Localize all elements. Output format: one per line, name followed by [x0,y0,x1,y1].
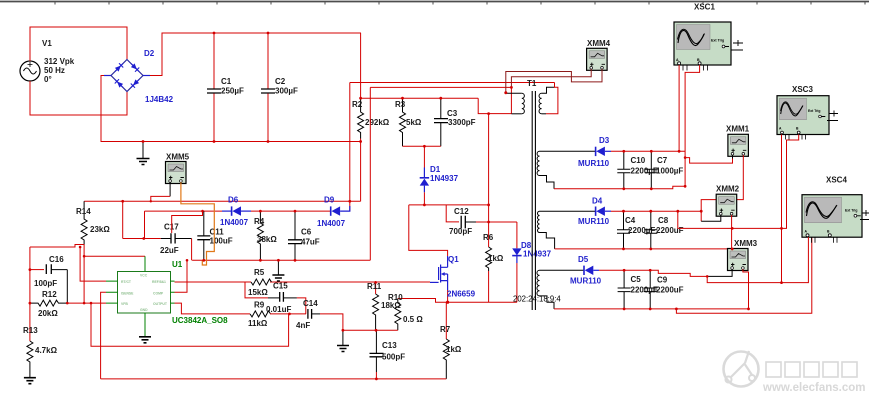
capacitor C3 [434,98,476,146]
svg-text:C7: C7 [657,156,668,165]
svg-text:XMM1: XMM1 [726,125,750,134]
wire node y=260 line [192,259,370,261]
wire U1 pin OUT2 to R9 line [175,303,251,314]
capacitor C9 [644,270,684,309]
svg-text:312 Vpk: 312 Vpk [44,57,75,66]
svg-text:2200µF: 2200µF [631,286,658,295]
svg-text:292kΩ: 292kΩ [365,118,390,127]
transformer primary winding left [506,93,525,114]
svg-text:1N4007: 1N4007 [317,219,346,228]
svg-text:R9: R9 [254,301,265,310]
capacitor C5 [618,270,658,309]
svg-text:1000µF: 1000µF [656,167,683,176]
wire XMM1 left lead [732,155,734,158]
wire return1 [554,186,685,189]
wire R2 bottom down [360,139,362,202]
svg-text:R12: R12 [42,290,57,299]
wire D6 node staircase [172,211,203,233]
resistor R12 [30,290,67,318]
svg-text:D2: D2 [144,49,155,58]
svg-text:D3: D3 [599,136,610,145]
diode D8 [512,222,551,302]
svg-text:22uF: 22uF [160,246,179,255]
watermark text [766,362,857,377]
wire C17 left riser [122,201,124,238]
transformer secondary winding 2 [538,211,596,249]
svg-text:15kΩ: 15kΩ [248,288,268,297]
svg-text:4nF: 4nF [296,321,310,330]
svg-text:XMM2: XMM2 [716,185,740,194]
svg-text:R5: R5 [254,268,265,277]
oscilloscope XSC4 [802,176,869,243]
svg-text:C4: C4 [625,216,636,225]
svg-text:100uF: 100uF [210,237,233,246]
resistor R11 [367,282,401,330]
resistor R6 [483,205,504,302]
svg-text:C16: C16 [49,255,64,264]
capacitor C4 [617,211,655,249]
svg-text:RT/CT: RT/CT [121,280,132,284]
svg-text:C6: C6 [301,228,312,237]
diode D4 [578,197,611,227]
wire right winding loop [546,83,558,114]
wire XMM2 right lead to return2 [731,215,733,249]
ground (C14 node) [337,330,349,351]
bridge rectifier D2 [111,49,174,104]
diode D3 [578,136,611,168]
wire U1 pin3 left line [67,302,106,304]
wire return3 [554,308,749,310]
svg-text:20kΩ: 20kΩ [38,309,58,318]
resistor R7 [440,302,462,379]
resistor R14 [76,201,110,244]
svg-text:R4: R4 [254,217,265,226]
svg-text:D9: D9 [324,196,335,205]
diode D1 [420,146,459,205]
diode D5 [570,255,602,286]
multimeter XMM4 [587,39,611,70]
svg-text:38kΩ: 38kΩ [257,235,277,244]
resistor R9 [248,301,270,329]
wire C16/R12 right riser [66,270,68,304]
svg-text:1N4937: 1N4937 [430,174,459,183]
resistor R5 [248,268,271,297]
svg-text:50 Hz: 50 Hz [44,66,65,75]
svg-text:A: A [676,58,679,62]
wire XMM4 left lead [511,69,591,87]
multimeter XMM3 [728,239,758,271]
svg-text:T1: T1 [527,79,537,88]
resistor R10 [388,293,423,330]
svg-text:R13: R13 [23,326,38,335]
svg-text:C14: C14 [303,299,318,308]
wire XMM2 left lead [701,215,721,221]
capacitor C16 [30,255,67,288]
wire long node line y=201 [84,200,360,202]
op-amp U1 UC3842 [106,256,228,336]
svg-text:47uF: 47uF [301,238,320,247]
capacitor C6 [288,211,320,260]
svg-text:R7: R7 [440,325,451,334]
svg-text:XSC4: XSC4 [826,176,847,185]
svg-text:Ext Trig: Ext Trig [808,109,820,113]
wire snubber line2 [370,86,511,88]
wire output3 line [599,270,707,276]
wire XSC3 B probe line [678,135,799,229]
wire snubber line1 [350,82,555,84]
svg-text:D5: D5 [578,255,589,264]
wire V1 top to bridge top [30,27,127,61]
wire R3/C3 bottom link [403,145,441,147]
svg-text:500pF: 500pF [382,353,405,362]
svg-text:3300pF: 3300pF [448,118,476,127]
svg-text:V1: V1 [42,39,52,48]
watermark logo [724,351,759,387]
svg-text:MUR110: MUR110 [578,217,610,226]
capacitor C12 [446,205,517,236]
wire snubber drop line2 [369,87,371,260]
svg-text:Ext Trig: Ext Trig [711,39,724,43]
wire XMM4 drop to primary [510,87,512,113]
svg-text:C1: C1 [221,77,232,86]
wire snubber drop line1 [349,83,351,212]
wire U1 pin COMP riser [175,260,188,292]
ground (y=260 line) [272,260,284,281]
capacitor C2 [261,33,298,142]
svg-text:XSC3: XSC3 [792,85,813,94]
wire V1 bottom to bridge bottom [30,81,127,115]
wire XSC3 A probe [781,135,783,283]
svg-text:D1: D1 [430,165,441,174]
svg-text:2N6659: 2N6659 [447,290,476,299]
svg-text:1J4B42: 1J4B42 [145,95,174,104]
svg-text:0.5 Ω: 0.5 Ω [403,315,423,324]
svg-text:UC3842A_SO8: UC3842A_SO8 [172,316,228,325]
wire XSC1 A probe [678,65,680,151]
wire left rail down [29,247,31,341]
transformer secondary winding 3 [537,270,584,309]
wire output1 line [611,150,685,152]
wire R11/R10/C13 node [343,329,398,331]
wire bottom bus [101,378,447,380]
svg-text:1N4937: 1N4937 [523,250,552,259]
wire output2 line [611,210,701,212]
svg-text:18kΩ: 18kΩ [381,301,401,310]
svg-text:www.elecfans.com: www.elecfans.com [762,382,865,394]
svg-text:R3: R3 [395,100,406,109]
multimeter XMM2 [716,185,740,217]
svg-text:202:24:18:9:4: 202:24:18:9:4 [513,295,561,304]
svg-text:1kΩ: 1kΩ [488,254,504,263]
wire bridge right corner to top DC rail [143,75,150,77]
svg-text:MUR110: MUR110 [570,277,602,286]
svg-text:REF/8&1: REF/8&1 [152,280,166,284]
svg-text:Ext Trig: Ext Trig [845,209,857,213]
svg-text:XMM3: XMM3 [734,239,758,248]
capacitor C13 [370,330,406,379]
svg-text:VFB: VFB [121,302,128,306]
wire XMM4 right lead [506,69,602,93]
transistor Q1 [430,255,476,302]
node line snubber top [361,98,512,113]
resistor R3 [395,98,422,146]
svg-text:C13: C13 [382,341,397,350]
svg-text:4.7kΩ: 4.7kΩ [35,346,58,355]
svg-text:OUTPUT: OUTPUT [153,302,168,306]
wire XMM3 right lead [743,269,749,309]
svg-text:R14: R14 [76,207,91,216]
wire bridge left corner to bottom rail [104,75,111,77]
wire snubber drop to drain node [488,114,490,205]
svg-text:COMP: COMP [153,291,164,295]
wire U1 pin1 left [80,247,106,281]
wire XMM3 left lead [707,269,732,276]
svg-text:C10: C10 [631,156,646,165]
resistor R4 [254,211,277,260]
capacitor C8 [644,211,683,249]
diode D6 [145,196,331,228]
wire U1 OUT to gate (R5 line) [175,281,431,283]
svg-text:R6: R6 [483,233,494,242]
wire XMM5 right lead (orange) [181,182,214,265]
svg-text:C5: C5 [631,275,642,284]
oscilloscope XSC1 [674,3,743,71]
transformer secondary winding 1 [537,151,596,189]
svg-text:2200uF: 2200uF [656,226,684,235]
svg-text:300µF: 300µF [275,87,298,96]
diode D9 [317,196,350,229]
wire VCC line to U1 top [84,255,145,257]
svg-text:D4: D4 [592,197,603,206]
svg-text:700pF: 700pF [449,227,472,236]
wire D6 left drop [144,211,146,238]
transformer primary winding right [539,87,554,114]
capacitor C17 [123,223,192,261]
wire XSC1 B probe [685,65,700,186]
svg-text:XSC1: XSC1 [694,3,715,12]
svg-text:Q1: Q1 [448,255,459,264]
capacitor C10 [617,151,658,189]
svg-text:VCC: VCC [140,274,148,278]
svg-text:U1: U1 [172,260,183,269]
ground (R13) [24,378,36,384]
svg-text:2200µF: 2200µF [631,167,658,176]
svg-text:100pF: 100pF [34,279,57,288]
svg-text:23kΩ: 23kΩ [90,225,110,234]
ground (U1) [139,337,151,343]
svg-text:MUR110: MUR110 [578,159,610,168]
wire XMM1 right lead [701,155,743,221]
capacitor C11 [197,211,232,260]
wire source node line [398,299,517,303]
wire U1 pin2 left to bottom bus [101,292,106,379]
svg-text:C9: C9 [657,276,668,285]
svg-text:R2: R2 [352,100,363,109]
wire return2 [555,248,733,250]
AC source V1 [20,39,75,84]
capacitor C7 [645,151,684,189]
capacitor C15 [245,282,306,315]
wire return3 branch to XSC4 [676,237,811,313]
svg-text:C12: C12 [454,207,469,216]
svg-text:ISENSE: ISENSE [121,291,134,295]
svg-text:C2: C2 [275,77,286,86]
svg-text:XMM5: XMM5 [166,153,190,162]
svg-text:11kΩ: 11kΩ [248,319,268,328]
wire XMM5 left lead [169,182,171,196]
svg-text:1N4007: 1N4007 [220,218,249,227]
capacitor C1 [207,33,244,142]
ruler bar [0,2,869,5]
svg-text:2200uF: 2200uF [656,286,684,295]
multimeter XMM1 [726,125,750,157]
svg-text:XMM4: XMM4 [587,39,611,48]
svg-text:5kΩ: 5kΩ [406,118,422,127]
wire pin3 drop loop [91,303,289,346]
resistor R13 [23,326,58,377]
svg-text:C15: C15 [273,282,288,291]
svg-text:GND: GND [140,308,148,312]
svg-text:D6: D6 [228,196,239,205]
ground (bottom rail) [137,142,150,165]
svg-text:C3: C3 [447,109,458,118]
svg-text:R11: R11 [367,282,382,291]
node line D1 bottom / drain [409,205,489,256]
svg-text:B: B [697,58,700,62]
capacitor C14 [270,299,343,330]
svg-text:0°: 0° [44,75,52,84]
wire R14 bottom node [30,245,84,304]
multimeter XMM5 [166,153,190,184]
svg-text:250µF: 250µF [221,87,244,96]
svg-text:C8: C8 [658,216,669,225]
svg-text:C11: C11 [210,228,225,237]
transformer T1 core [527,79,537,310]
wire XMM3 left to XSC4 A [707,237,808,283]
oscilloscope XSC3 [777,85,838,140]
resistor R2 [352,33,390,139]
svg-text:1kΩ: 1kΩ [446,345,462,354]
